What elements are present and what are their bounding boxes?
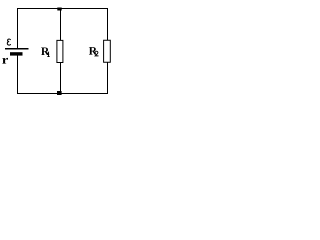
resistor R1 box — [57, 40, 63, 62]
junction node top (dot) — [57, 8, 61, 11]
label R2 — [89, 47, 97, 55]
battery short thick plate — [10, 52, 23, 55]
wire middle upper (top junction to R1) — [60, 8, 62, 41]
wire left lower (from battery to bottom-left corner) — [17, 56, 19, 95]
label epsilon (emf) — [7, 39, 10, 45]
label r (internal resistance) — [2, 58, 8, 64]
wire right upper (top-right corner to R2) — [107, 8, 109, 40]
wire right lower (R2 to bottom-right corner) — [107, 62, 109, 94]
wire left upper (from top-left corner to battery) — [17, 8, 19, 50]
label R1 — [41, 47, 49, 55]
wire bottom — [17, 93, 108, 95]
battery long plate (emf terminal) — [5, 48, 29, 50]
wire top — [17, 8, 108, 10]
junction node bottom (dot) — [57, 91, 62, 95]
resistor R2 box — [104, 40, 111, 62]
wire middle lower (R1 to bottom junction) — [60, 63, 62, 94]
